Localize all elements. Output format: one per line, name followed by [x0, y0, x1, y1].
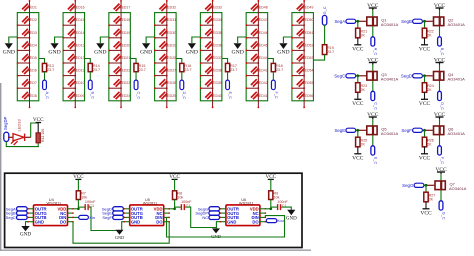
svg-text:LED48: LED48	[257, 6, 268, 10]
svg-text:D_C: D_C	[440, 102, 444, 110]
svg-text:WS2811: WS2811	[143, 200, 158, 205]
svg-text:LED16: LED16	[74, 6, 85, 10]
svg-text:LED53: LED53	[303, 56, 314, 60]
svg-text:LED33: LED33	[211, 6, 222, 10]
svg-text:23.7: 23.7	[230, 68, 237, 72]
svg-text:LED47: LED47	[257, 18, 268, 22]
svg-text:SegD: SegD	[401, 74, 412, 79]
svg-text:GND: GND	[231, 49, 243, 55]
svg-text:2K: 2K	[429, 198, 434, 202]
svg-text:LED52: LED52	[303, 43, 314, 47]
svg-text:LED7: LED7	[28, 81, 37, 85]
svg-text:G_C: G_C	[323, 6, 327, 14]
svg-text:E_C: E_C	[373, 157, 377, 165]
svg-text:LED39: LED39	[211, 81, 222, 85]
svg-text:GND: GND	[20, 232, 31, 238]
svg-text:LED55: LED55	[303, 81, 314, 85]
svg-text:B_C: B_C	[91, 92, 95, 100]
svg-text:AO3401A: AO3401A	[448, 22, 466, 27]
svg-text:LED2: LED2	[28, 18, 37, 22]
svg-text:LED28: LED28	[165, 56, 176, 60]
svg-text:LED20: LED20	[120, 43, 131, 47]
svg-text:SegG: SegG	[402, 183, 414, 188]
svg-text:F_C: F_C	[440, 157, 444, 164]
svg-text:LED45: LED45	[257, 43, 268, 47]
svg-text:VCC: VCC	[367, 112, 379, 118]
svg-text:NC: NC	[202, 215, 208, 220]
svg-text:D_C: D_C	[182, 92, 186, 100]
svg-text:LED33: LED33	[17, 118, 22, 131]
svg-text:SegF: SegF	[102, 215, 112, 220]
svg-text:2K: 2K	[427, 88, 432, 92]
svg-text:A_C: A_C	[45, 92, 49, 100]
svg-text:DO: DO	[156, 219, 163, 224]
svg-text:SegC: SegC	[6, 215, 16, 220]
svg-text:GND: GND	[186, 49, 198, 55]
svg-text:LED21: LED21	[120, 56, 131, 60]
svg-text:AO3401A: AO3401A	[381, 76, 399, 81]
svg-text:10k: 10k	[274, 195, 280, 199]
svg-text:Xin: Xin	[89, 215, 95, 220]
svg-text:GND: GND	[3, 49, 15, 55]
svg-text:LED18: LED18	[120, 18, 131, 22]
svg-text:AO3401A: AO3401A	[448, 76, 466, 81]
svg-text:VCC: VCC	[367, 3, 379, 9]
svg-text:LED34: LED34	[211, 18, 222, 22]
svg-text:LED19: LED19	[120, 31, 131, 35]
svg-text:SegF: SegF	[401, 128, 412, 133]
svg-text:GND: GND	[211, 234, 222, 239]
svg-text:23.7: 23.7	[47, 68, 54, 72]
svg-text:SegDP: SegDP	[3, 117, 8, 130]
svg-text:LED24: LED24	[120, 94, 131, 98]
svg-text:AO3401A: AO3401A	[448, 131, 466, 136]
svg-text:LED17: LED17	[120, 6, 131, 10]
svg-text:LED51: LED51	[303, 31, 314, 35]
svg-text:WS2811: WS2811	[47, 200, 62, 205]
svg-text:B_C: B_C	[440, 48, 444, 56]
svg-text:G_C: G_C	[442, 212, 446, 220]
svg-text:LED12: LED12	[74, 56, 85, 60]
svg-text:VCC: VCC	[419, 46, 431, 52]
svg-text:LED49: LED49	[303, 6, 314, 10]
svg-text:LED4: LED4	[28, 43, 37, 47]
svg-text:LED41: LED41	[257, 94, 268, 98]
svg-text:GND: GND	[48, 49, 60, 55]
svg-text:VCC: VCC	[434, 3, 446, 9]
svg-text:R11 100: R11 100	[41, 129, 45, 142]
svg-text:VCC: VCC	[434, 112, 446, 118]
svg-text:LED5: LED5	[28, 56, 37, 60]
svg-text:LED8: LED8	[28, 94, 37, 98]
svg-text:SegB: SegB	[401, 19, 412, 24]
svg-text:VCC: VCC	[419, 101, 431, 107]
svg-text:LED40: LED40	[211, 94, 222, 98]
svg-text:10k: 10k	[81, 195, 87, 199]
svg-text:LED26: LED26	[165, 81, 176, 85]
svg-text:LED35: LED35	[211, 31, 222, 35]
svg-text:2K: 2K	[427, 143, 432, 147]
svg-text:LED38: LED38	[211, 69, 222, 73]
svg-text:LED10: LED10	[74, 81, 85, 85]
svg-text:23.7: 23.7	[139, 68, 146, 72]
svg-text:LED23: LED23	[120, 81, 131, 85]
svg-text:SegE: SegE	[334, 128, 345, 133]
svg-text:LED22: LED22	[120, 69, 131, 73]
svg-text:VCC: VCC	[434, 57, 446, 63]
svg-text:DO: DO	[252, 219, 259, 224]
svg-text:GND: GND	[131, 219, 140, 224]
svg-text:23.7: 23.7	[93, 68, 100, 72]
svg-text:VCC: VCC	[367, 57, 379, 63]
svg-text:VCC: VCC	[352, 155, 364, 161]
svg-text:LED15: LED15	[74, 18, 85, 22]
svg-text:LED43: LED43	[257, 69, 268, 73]
svg-text:LED6: LED6	[28, 69, 37, 73]
svg-text:LED37: LED37	[211, 56, 222, 60]
svg-text:LED44: LED44	[257, 56, 268, 60]
svg-text:LED1: LED1	[28, 6, 37, 10]
svg-text:LED56: LED56	[303, 94, 314, 98]
svg-text:F_C: F_C	[274, 92, 278, 99]
svg-text:LED3: LED3	[28, 31, 37, 35]
svg-text:WS2811: WS2811	[239, 200, 254, 205]
svg-text:LED29: LED29	[165, 43, 176, 47]
svg-text:LED09: LED09	[74, 94, 85, 98]
svg-text:LED14: LED14	[74, 31, 85, 35]
svg-text:VCC: VCC	[352, 101, 364, 107]
svg-text:LED36: LED36	[211, 43, 222, 47]
svg-text:SegC: SegC	[334, 74, 345, 79]
svg-text:GND: GND	[94, 49, 106, 55]
svg-text:E_C: E_C	[228, 92, 232, 100]
svg-text:LED11: LED11	[74, 69, 84, 73]
svg-text:10k: 10k	[177, 195, 183, 199]
svg-text:VCC: VCC	[420, 210, 432, 216]
svg-text:A_C: A_C	[373, 48, 377, 56]
svg-text:SegA: SegA	[334, 19, 345, 24]
svg-text:GND: GND	[227, 219, 236, 224]
svg-text:2K: 2K	[361, 34, 366, 38]
svg-text:LED32: LED32	[165, 6, 176, 10]
svg-text:AO3401A: AO3401A	[449, 186, 467, 191]
svg-text:LED13: LED13	[74, 43, 85, 47]
svg-text:GND: GND	[35, 219, 44, 224]
svg-text:C_C: C_C	[136, 92, 140, 100]
svg-text:23.7: 23.7	[276, 68, 283, 72]
svg-text:LED31: LED31	[165, 18, 176, 22]
svg-text:LED25: LED25	[165, 94, 176, 98]
svg-text:LED27: LED27	[165, 69, 176, 73]
svg-text:2K: 2K	[361, 88, 366, 92]
svg-text:LED42: LED42	[257, 81, 268, 85]
svg-text:VCC: VCC	[352, 46, 364, 52]
svg-text:GND: GND	[277, 49, 289, 55]
svg-text:LED30: LED30	[165, 31, 176, 35]
svg-text:AO3401A: AO3401A	[381, 131, 399, 136]
svg-text:VCC: VCC	[435, 167, 447, 173]
svg-text:DO: DO	[60, 219, 67, 224]
svg-text:2K: 2K	[427, 34, 432, 38]
svg-text:AO3401A: AO3401A	[381, 22, 399, 27]
svg-text:GND: GND	[140, 49, 152, 55]
svg-text:VCC: VCC	[419, 155, 431, 161]
svg-text:C_C: C_C	[373, 102, 377, 110]
svg-text:23.7: 23.7	[327, 50, 334, 54]
svg-text:GND: GND	[286, 217, 297, 222]
svg-text:GND: GND	[115, 235, 124, 240]
svg-text:LED50: LED50	[303, 18, 314, 22]
svg-text:2K: 2K	[361, 143, 366, 147]
svg-text:23.7: 23.7	[184, 68, 191, 72]
svg-text:LED54: LED54	[303, 69, 314, 73]
svg-text:LED46: LED46	[257, 31, 268, 35]
